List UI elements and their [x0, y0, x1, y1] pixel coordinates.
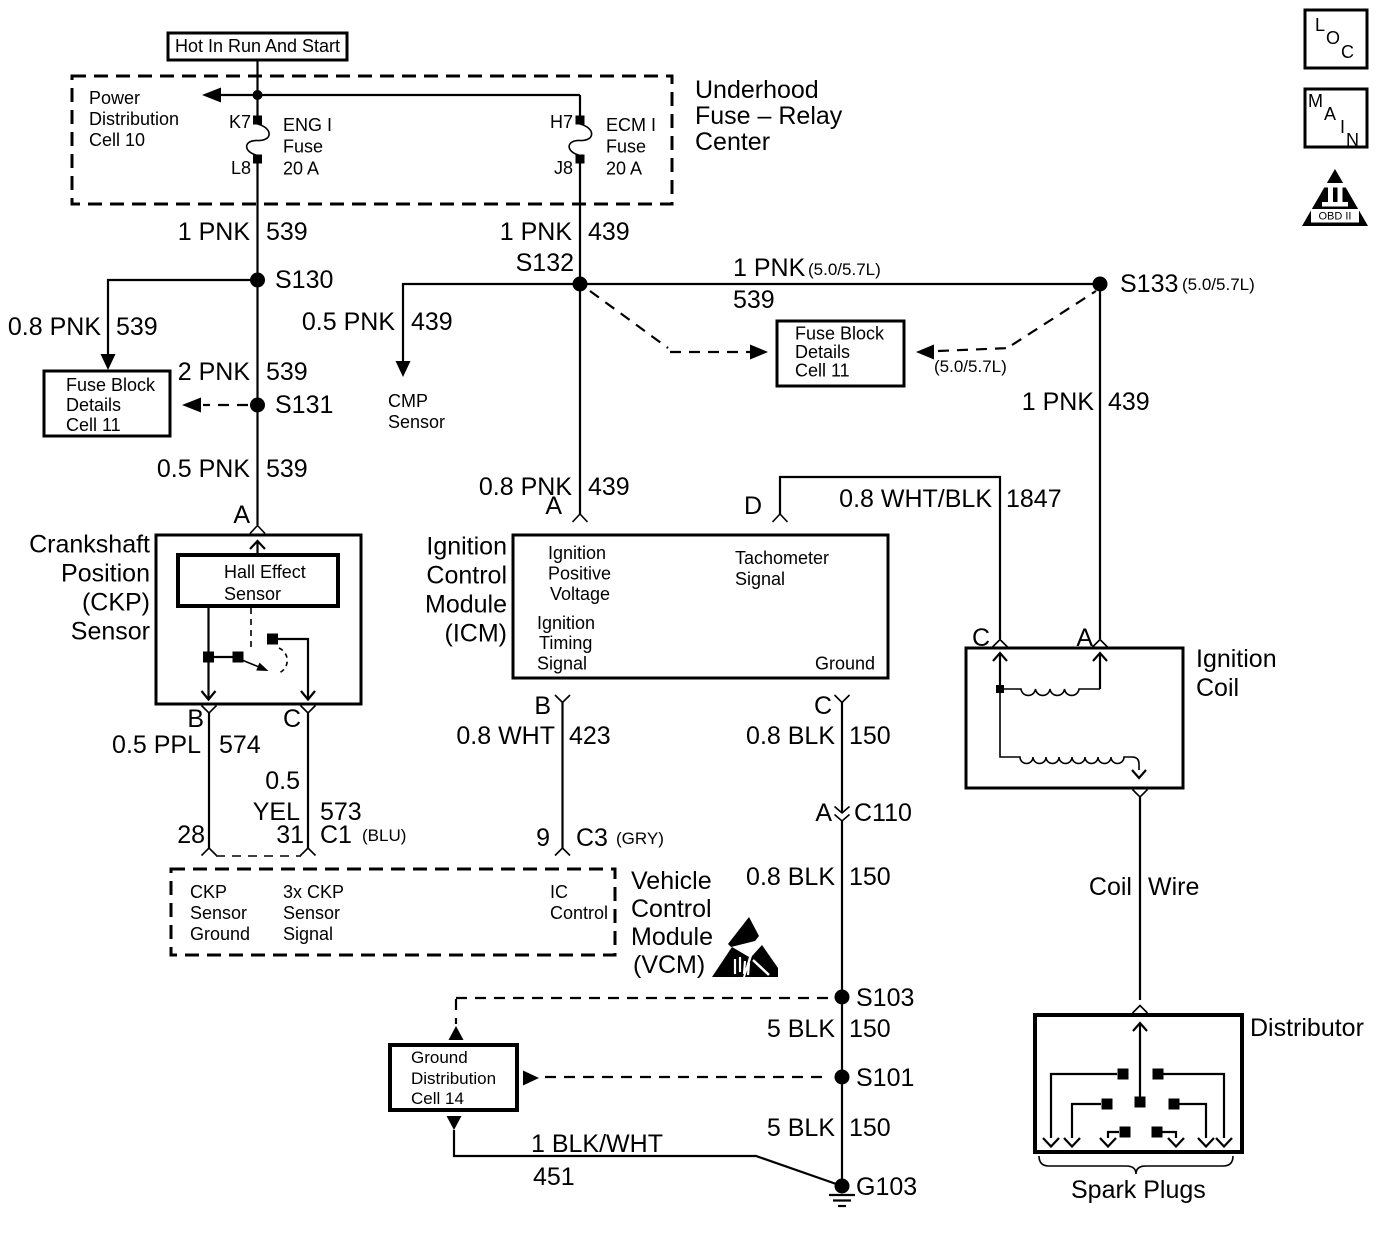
dashed arrow S131 to fuse block: [182, 398, 248, 413]
svg-text:Signal: Signal: [283, 924, 333, 944]
arrow down from ground distribution: [447, 1116, 462, 1130]
svg-text:N: N: [1346, 130, 1359, 150]
svg-text:C110: C110: [854, 799, 912, 827]
coil secondary winding: [1000, 693, 1139, 770]
fuse block details cell 11 box (middle): [777, 321, 904, 386]
svg-text:Fuse – Relay: Fuse – Relay: [695, 102, 843, 130]
svg-text:S101: S101: [856, 1064, 914, 1092]
LOC legend box: [1305, 10, 1367, 68]
wire S132 to S133: [580, 283, 1100, 285]
svg-text:150: 150: [849, 1015, 891, 1043]
spark plugs brace: [1039, 1156, 1233, 1174]
svg-text:Control: Control: [550, 903, 608, 923]
spark plug wire 3: [1064, 1099, 1113, 1147]
svg-text:0.5: 0.5: [265, 767, 300, 795]
wire ground chain below C110: [841, 821, 843, 1186]
label Crankshaft Position (CKP) Sensor: [29, 531, 150, 646]
svg-text:CMP: CMP: [388, 391, 428, 411]
spark plug wire 6: [1152, 1127, 1185, 1147]
fuse ENG I 20A: [229, 112, 332, 179]
svg-text:A: A: [1324, 104, 1336, 124]
svg-text:1 PNK: 1 PNK: [733, 254, 806, 282]
svg-text:3x CKP: 3x CKP: [283, 882, 344, 902]
svg-text:Fuse Block: Fuse Block: [66, 375, 156, 395]
svg-text:439: 439: [588, 218, 630, 246]
svg-text:Sensor: Sensor: [224, 584, 281, 604]
ESD warning symbol: [712, 917, 778, 977]
svg-text:1 PNK: 1 PNK: [178, 218, 251, 246]
svg-text:Sensor: Sensor: [388, 412, 445, 432]
dashed connector face C1: [216, 855, 301, 857]
svg-text:C: C: [283, 705, 301, 733]
coil primary winding: [996, 685, 1100, 695]
label Coil Wire: [1089, 873, 1199, 901]
CKP internal arrow B: [202, 691, 216, 700]
svg-text:(BLU): (BLU): [362, 826, 406, 845]
svg-text:574: 574: [219, 731, 261, 759]
CKP internal arrow C: [301, 691, 315, 700]
spark plug wire 2: [1153, 1069, 1233, 1147]
wire S130 branch to fuse block: [108, 280, 258, 358]
svg-text:CKP: CKP: [190, 882, 227, 902]
svg-text:(5.0/5.7L): (5.0/5.7L): [808, 260, 881, 279]
svg-text:Control: Control: [426, 562, 507, 590]
svg-text:(ICM): (ICM): [445, 620, 507, 648]
pin B of ICM: [534, 692, 570, 720]
svg-text:539: 539: [266, 218, 308, 246]
label Vehicle Control Module (VCM): [631, 867, 713, 979]
svg-text:1 PNK: 1 PNK: [1022, 388, 1095, 416]
coil internal arrow A: [1093, 653, 1107, 689]
wire CKP B to VCM 28: [208, 713, 210, 848]
svg-text:S133: S133: [1120, 270, 1178, 298]
wire PNK539 spine: [256, 163, 258, 525]
svg-text:Timing: Timing: [539, 633, 592, 653]
svg-text:(5.0/5.7L): (5.0/5.7L): [1182, 275, 1255, 294]
pin D of ICM: [744, 492, 788, 522]
spark plug wire 1: [1043, 1069, 1129, 1147]
label 0.5 PPL 574: [112, 731, 261, 759]
arrow to CMP sensor: [396, 361, 411, 377]
svg-text:0.8 BLK: 0.8 BLK: [746, 863, 835, 891]
svg-text:Ignition: Ignition: [537, 613, 595, 633]
svg-text:Power: Power: [89, 88, 140, 108]
svg-text:539: 539: [266, 358, 308, 386]
svg-text:Ignition: Ignition: [1196, 645, 1277, 673]
svg-text:1 PNK: 1 PNK: [500, 218, 573, 246]
ignition coil box: [966, 648, 1183, 788]
svg-text:Fuse Block: Fuse Block: [795, 324, 885, 344]
svg-text:C1: C1: [320, 821, 352, 849]
svg-text:C3: C3: [576, 824, 608, 852]
MAIN legend box: [1305, 89, 1367, 150]
hall effect sensor box: [178, 555, 338, 606]
svg-text:0.5 PNK: 0.5 PNK: [157, 455, 250, 483]
svg-text:439: 439: [1108, 388, 1150, 416]
svg-text:Details: Details: [795, 342, 850, 362]
svg-text:Module: Module: [425, 591, 507, 619]
wire CKP C to VCM 31: [307, 713, 309, 848]
distributor box: [1035, 1015, 1242, 1152]
VCM dashed box: [171, 869, 615, 955]
label Underhood Fuse-Relay Center: [695, 76, 843, 156]
svg-text:0.8 BLK: 0.8 BLK: [746, 722, 835, 750]
svg-text:Vehicle: Vehicle: [631, 867, 712, 895]
svg-text:Spark Plugs: Spark Plugs: [1071, 1176, 1206, 1204]
label 1 PNK 439 (right): [1022, 388, 1150, 416]
underhood fuse-relay center dashed box: [72, 76, 672, 204]
svg-text:L: L: [1315, 15, 1325, 35]
node S130: [250, 266, 333, 294]
svg-text:5 BLK: 5 BLK: [767, 1114, 835, 1142]
svg-text:Sensor: Sensor: [283, 903, 340, 923]
hot-in-run box: [168, 33, 347, 60]
svg-text:Hot In Run And Start: Hot In Run And Start: [175, 36, 340, 56]
wire S132 branch to CMP sensor: [403, 284, 580, 364]
svg-text:H7: H7: [550, 112, 573, 132]
svg-text:Ground: Ground: [190, 924, 250, 944]
svg-text:Underhood: Underhood: [695, 76, 819, 104]
CKP internal right lead: [278, 639, 308, 699]
pin B of CKP: [187, 705, 216, 733]
svg-text:Fuse: Fuse: [283, 137, 323, 157]
wire ICM B to VCM 9: [561, 703, 563, 849]
svg-text:31: 31: [276, 821, 304, 849]
dashed rotation arc: [279, 648, 287, 673]
svg-text:1847: 1847: [1006, 485, 1062, 513]
svg-text:Signal: Signal: [537, 654, 587, 674]
CKP internal left lead: [207, 606, 209, 699]
svg-text:Fuse: Fuse: [606, 137, 646, 157]
svg-text:O: O: [1326, 28, 1340, 48]
wire horizontal feed: [205, 94, 580, 96]
svg-text:G103: G103: [856, 1173, 917, 1201]
svg-text:(GRY): (GRY): [616, 829, 664, 848]
svg-text:(5.0/5.7L): (5.0/5.7L): [934, 357, 1007, 376]
dashed wire S133 to fuse block details (middle): [916, 291, 1096, 376]
label CMP Sensor: [388, 391, 445, 432]
svg-text:S103: S103: [856, 984, 914, 1012]
label 1 PNK 539: [178, 218, 308, 246]
CKP sensor box: [156, 535, 361, 704]
label 0.8 WHT 423: [456, 722, 610, 750]
svg-text:A: A: [233, 501, 250, 529]
dashed wire S132 to fuse block details (middle): [590, 291, 768, 360]
pin A of CKP: [233, 501, 265, 534]
wire PNK439 spine: [579, 163, 581, 514]
OBD II symbol: [1302, 169, 1368, 226]
node S103: [835, 984, 915, 1012]
svg-text:S131: S131: [275, 391, 333, 419]
label Power Distribution Cell 10: [89, 88, 179, 150]
svg-text:150: 150: [849, 1114, 891, 1142]
svg-text:Wire: Wire: [1148, 873, 1199, 901]
svg-text:OBD II: OBD II: [1318, 211, 1351, 223]
label Ignition Control Module (ICM): [425, 533, 507, 648]
CKP wiper arrow: [242, 660, 269, 671]
pin 28: [177, 821, 216, 856]
svg-text:B: B: [534, 692, 551, 720]
svg-text:Ground: Ground: [815, 654, 875, 674]
svg-text:Signal: Signal: [735, 569, 785, 589]
svg-text:Coil: Coil: [1089, 873, 1132, 901]
svg-text:D: D: [744, 492, 762, 520]
arrow up from ground distribution: [449, 1026, 464, 1040]
fuse ECM I 20A: [550, 112, 656, 179]
svg-text:C: C: [1341, 42, 1354, 62]
svg-text:Position: Position: [61, 560, 150, 588]
svg-text:539: 539: [266, 455, 308, 483]
wire down to fuse H7: [579, 95, 581, 116]
ground G103: [829, 1173, 917, 1206]
svg-text:539: 539: [733, 286, 775, 314]
svg-text:Cell 10: Cell 10: [89, 130, 145, 150]
spark plug wire 5: [1100, 1127, 1131, 1147]
svg-text:0.8 WHT: 0.8 WHT: [456, 722, 555, 750]
label 5 BLK 150: [767, 1015, 891, 1043]
svg-text:C: C: [814, 692, 832, 720]
label 2 PNK 539: [178, 358, 308, 386]
ICM pin names inside: [537, 543, 875, 674]
svg-text:Sensor: Sensor: [190, 903, 247, 923]
pin C of ignition coil: [972, 624, 1008, 652]
node S131: [250, 391, 333, 419]
node S101: [835, 1064, 915, 1092]
svg-text:Ignition: Ignition: [548, 543, 606, 563]
svg-text:Positive: Positive: [548, 564, 611, 584]
arrow into fuse block cell 11: [101, 354, 116, 370]
label 1 PNK 439: [500, 218, 630, 246]
svg-text:Hall Effect: Hall Effect: [224, 562, 306, 582]
svg-text:Tachometer: Tachometer: [735, 548, 829, 568]
svg-text:(CKP): (CKP): [82, 589, 150, 617]
svg-text:423: 423: [569, 722, 611, 750]
label 1 PNK (5.0/5.7L) 539: [733, 254, 881, 314]
svg-text:B: B: [187, 705, 204, 733]
pin C of CKP: [283, 705, 316, 733]
distributor input connector: [1133, 1006, 1148, 1014]
coil internal arrow out: [1132, 770, 1146, 778]
svg-text:L8: L8: [231, 158, 251, 178]
svg-text:Crankshaft: Crankshaft: [29, 531, 150, 559]
label 0.8 BLK 150 (below C110): [746, 863, 891, 891]
fuse block details cell 11 box (left): [44, 371, 170, 436]
label 0.8 BLK 150: [746, 722, 891, 750]
svg-text:Voltage: Voltage: [550, 584, 610, 604]
svg-text:1 BLK/WHT: 1 BLK/WHT: [531, 1130, 663, 1158]
distributor rotor arrow: [1133, 1023, 1147, 1108]
CKP contact square upper right: [267, 634, 278, 645]
dashed wire ground distribution to S101: [523, 1071, 830, 1086]
svg-text:Module: Module: [631, 923, 713, 951]
label 0.8 PNK 539: [8, 313, 158, 341]
svg-text:A: A: [815, 799, 832, 827]
svg-text:Distribution: Distribution: [89, 109, 179, 129]
pin 31 and connector C1: [276, 821, 406, 856]
VCM pin names inside: [190, 882, 608, 944]
svg-text:Distributor: Distributor: [1250, 1014, 1364, 1042]
svg-text:2 PNK: 2 PNK: [178, 358, 251, 386]
svg-text:150: 150: [849, 722, 891, 750]
svg-text:20 A: 20 A: [283, 159, 319, 179]
pin A of ICM: [545, 492, 587, 522]
ground distribution cell 14 box: [390, 1045, 517, 1110]
svg-text:J8: J8: [554, 158, 573, 178]
inline connector C110 pin A: [815, 799, 912, 827]
svg-text:20 A: 20 A: [606, 159, 642, 179]
svg-text:IC: IC: [550, 882, 568, 902]
svg-text:539: 539: [116, 313, 158, 341]
svg-text:Cell 11: Cell 11: [795, 361, 850, 381]
wire hot box down to fuse K7: [256, 60, 258, 116]
node S132: [516, 249, 588, 292]
svg-text:451: 451: [533, 1163, 575, 1191]
svg-text:Cell 14: Cell 14: [411, 1089, 464, 1108]
svg-text:0.8 WHT/BLK: 0.8 WHT/BLK: [839, 485, 992, 513]
svg-text:ENG I: ENG I: [283, 115, 332, 135]
arrow left feed: [202, 88, 221, 103]
svg-text:I: I: [1340, 117, 1345, 137]
pin A of ignition coil: [1076, 624, 1107, 652]
svg-text:Control: Control: [631, 895, 712, 923]
svg-text:5 BLK: 5 BLK: [767, 1015, 835, 1043]
svg-text:9: 9: [536, 824, 550, 852]
label 1 BLK/WHT 451: [531, 1130, 663, 1191]
svg-text:0.8 PNK: 0.8 PNK: [479, 473, 572, 501]
svg-text:Ignition: Ignition: [426, 533, 507, 561]
wire between contacts: [214, 656, 233, 658]
label Ignition Coil: [1196, 645, 1277, 702]
label 0.5 YEL 573: [253, 767, 362, 826]
coil wire to distributor: [1139, 797, 1141, 1000]
pin 9 and connector C3: [536, 824, 664, 856]
CKP switch contact squares: [203, 652, 214, 663]
node junction at top feed: [253, 90, 263, 100]
label 0.8 WHT/BLK 1847: [839, 485, 1061, 513]
svg-text:Sensor: Sensor: [71, 618, 150, 646]
wire S133 down to coil A: [1099, 284, 1101, 639]
svg-text:Cell 11: Cell 11: [66, 415, 121, 435]
svg-text:439: 439: [588, 473, 630, 501]
svg-text:0.5 PNK: 0.5 PNK: [302, 308, 395, 336]
svg-text:0.5 PPL: 0.5 PPL: [112, 731, 201, 759]
svg-text:439: 439: [411, 308, 453, 336]
svg-text:ECM I: ECM I: [606, 115, 656, 135]
arrow up into hall sensor: [250, 541, 265, 555]
node S133: [1093, 270, 1255, 298]
svg-text:S132: S132: [516, 249, 574, 277]
svg-text:Coil: Coil: [1196, 674, 1239, 702]
svg-text:M: M: [1308, 91, 1323, 111]
label 0.5 PNK 539: [157, 455, 308, 483]
svg-text:(VCM): (VCM): [633, 951, 705, 979]
pin C of ICM: [814, 692, 850, 720]
coil internal arrow C: [993, 653, 1007, 689]
CKP internal dashed lead: [250, 608, 252, 652]
wire tach signal WHT/BLK 1847: [780, 477, 1000, 639]
svg-text:Details: Details: [66, 395, 121, 415]
svg-text:Ground: Ground: [411, 1048, 468, 1067]
label 0.8 PNK 439: [479, 473, 630, 501]
svg-text:K7: K7: [229, 112, 251, 132]
label 5 BLK 150 (lower): [767, 1114, 891, 1142]
spark plug wire 4: [1169, 1099, 1215, 1147]
svg-text:Distribution: Distribution: [411, 1069, 496, 1088]
label 0.5 PNK 439: [302, 308, 453, 336]
ICM box: [513, 535, 888, 678]
svg-text:Center: Center: [695, 128, 770, 156]
svg-text:150: 150: [849, 863, 891, 891]
svg-text:28: 28: [177, 821, 205, 849]
wire ICM C ground down: [841, 703, 843, 814]
svg-text:S130: S130: [275, 266, 333, 294]
svg-text:0.8 PNK: 0.8 PNK: [8, 313, 101, 341]
wire BLK/WHT 451 to G103: [454, 1130, 842, 1186]
coil output connector: [1133, 790, 1148, 798]
dashed wire VCM to S103: [456, 997, 830, 999]
